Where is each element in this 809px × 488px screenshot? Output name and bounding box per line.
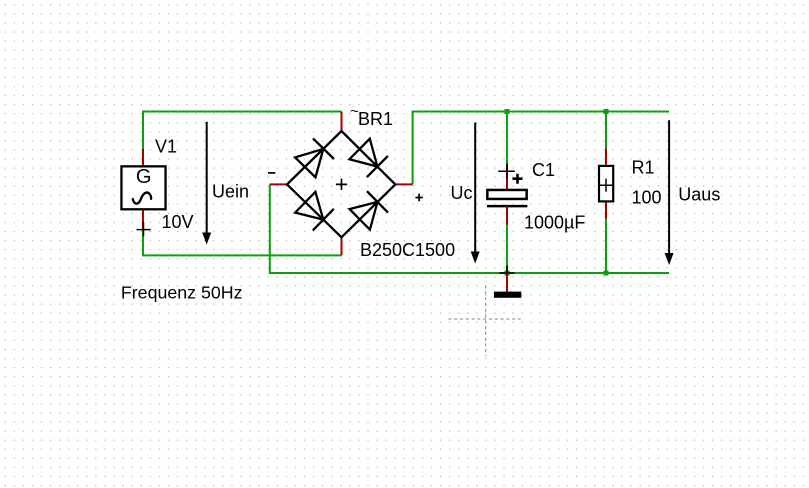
pin stub V1 top	[142, 149, 144, 166]
svg-text:C1: C1	[532, 160, 555, 180]
svg-text:Uaus: Uaus	[678, 185, 720, 205]
junction dot bottom R1	[604, 271, 609, 276]
BR1 minus mark	[268, 172, 275, 174]
svg-text:Uc: Uc	[451, 183, 473, 203]
svg-text:10V: 10V	[162, 212, 194, 232]
C1 top plate box	[487, 190, 526, 199]
svg-text:Uein: Uein	[212, 182, 249, 202]
junction dot top R1	[604, 109, 609, 114]
voltage source V1	[121, 137, 193, 237]
C1 polarity plus	[513, 174, 523, 184]
wire C1 bottom	[506, 225, 508, 273]
arrow Uc	[451, 123, 480, 264]
pin stub C1 top	[506, 166, 508, 189]
ground	[494, 266, 521, 298]
arrow Uaus	[665, 120, 721, 265]
ground node cross	[500, 266, 515, 281]
V1 body box	[121, 166, 165, 209]
ground bar	[494, 292, 521, 298]
pin stub R1 bottom	[605, 203, 607, 219]
C1 bottom plate	[487, 205, 527, 208]
resistor R1	[599, 112, 662, 274]
cursor crosshair vertical	[485, 286, 487, 357]
R1 origin cross	[600, 179, 613, 192]
wire R1 bottom	[605, 219, 607, 273]
BR1 diode bottom-left	[295, 192, 334, 231]
C1 origin cross	[498, 164, 515, 180]
svg-text:V1: V1	[155, 137, 177, 157]
pin stub BR1 top	[341, 112, 343, 132]
pin stub BR1 left	[270, 183, 287, 185]
wire bridge minus output down and bottom rail right	[270, 184, 669, 273]
bridge rectifier BR1	[268, 103, 455, 260]
junction dot top C1	[505, 109, 510, 114]
wire top rail left (source top to bridge AC top)	[143, 112, 342, 149]
V1 plus polarity cross	[137, 222, 151, 236]
BR1 diamond body	[287, 131, 395, 237]
svg-text:R1: R1	[632, 158, 655, 178]
capacitor C1	[487, 112, 585, 274]
pin stub V1 bottom	[142, 210, 144, 230]
wire bottom rail left (source bottom to bridge AC bottom)	[143, 230, 342, 255]
svg-text:B250C1500: B250C1500	[360, 240, 455, 260]
svg-text:G: G	[136, 166, 152, 188]
BR1 diode top-right	[349, 139, 388, 178]
pin stub R1 top	[605, 148, 607, 164]
BR1 diode top-left	[295, 138, 334, 177]
svg-text:1000µF: 1000µF	[524, 213, 585, 233]
svg-text:BR1: BR1	[358, 109, 393, 129]
pin stub BR1 bottom	[341, 237, 343, 255]
ground pin stub	[506, 273, 508, 292]
arrow Uein	[202, 122, 249, 245]
BR1 center cross	[336, 179, 347, 190]
BR1 plus mark	[415, 194, 422, 201]
wire C1 top	[506, 112, 508, 166]
pin stub BR1 right	[395, 183, 412, 185]
junction dot bottom C1/ground	[505, 271, 510, 276]
V1 sine wave	[133, 193, 151, 204]
wire bridge plus output up and top rail right	[413, 112, 669, 185]
pin stub C1 bottom	[506, 206, 508, 225]
R1 body box	[599, 166, 613, 202]
cursor crosshair horizontal	[448, 318, 520, 320]
svg-text:100: 100	[632, 188, 662, 208]
wire R1 top	[605, 112, 607, 149]
svg-text:Frequenz 50Hz: Frequenz 50Hz	[121, 282, 243, 302]
BR1 diode bottom-right	[350, 191, 389, 230]
